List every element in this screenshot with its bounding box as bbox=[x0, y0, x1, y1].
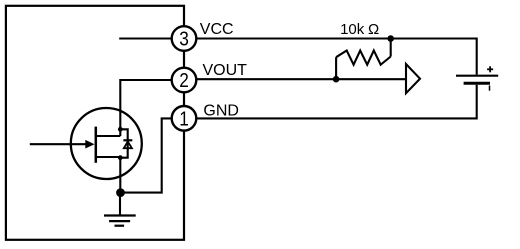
wire VOUT internal: pin2 to transistor drain bbox=[120, 80, 176, 136]
pin 1 circle bbox=[172, 106, 197, 131]
gate/channel bar bbox=[95, 127, 98, 163]
wire VCC internal stub bbox=[119, 37, 176, 39]
svg-text:VCC: VCC bbox=[200, 21, 234, 38]
node drain junction bbox=[118, 127, 123, 132]
transistor Q1 body circle bbox=[71, 108, 142, 179]
svg-text:Ω: Ω bbox=[368, 21, 379, 38]
pin 2 circle bbox=[172, 68, 197, 93]
pin 3 circle bbox=[172, 26, 197, 51]
wire gate lead bbox=[30, 143, 88, 145]
wire GND internal: source node to pin1 bbox=[121, 118, 177, 192]
gate arrowhead bbox=[85, 140, 94, 149]
wire ground stem bbox=[119, 193, 121, 216]
svg-text:VOUT: VOUT bbox=[203, 62, 248, 79]
wire resistor right stub bbox=[390, 39, 392, 57]
wire source tap bbox=[97, 156, 121, 158]
wire drain tap bbox=[97, 135, 121, 137]
wire source lead down bbox=[119, 157, 121, 193]
ground symbol bbox=[104, 216, 136, 226]
wire VOUT external: pin2 to buffer input bbox=[192, 78, 406, 80]
buffer amplifier U2 triangle bbox=[406, 64, 420, 93]
IC package outline U1 bbox=[6, 6, 184, 240]
battery BT1 negative plate bbox=[464, 82, 490, 85]
wire resistor left stub bbox=[335, 57, 337, 79]
battery minus tick bbox=[489, 86, 491, 91]
body diode branch wire bbox=[120, 129, 127, 157]
node VOUT-resistor junction bbox=[333, 76, 340, 83]
svg-text:10k: 10k bbox=[340, 21, 365, 38]
battery plus label bbox=[487, 66, 493, 72]
battery BT1 positive plate bbox=[456, 75, 498, 77]
wire GND external: pin1 to battery negative bbox=[192, 85, 477, 119]
svg-text:GND: GND bbox=[203, 103, 239, 120]
body diode D1 cathode bar bbox=[123, 139, 132, 141]
node VCC-resistor junction bbox=[387, 35, 394, 42]
svg-text:2: 2 bbox=[179, 70, 189, 92]
resistor R1 zigzag bbox=[336, 51, 391, 65]
svg-text:3: 3 bbox=[179, 29, 189, 51]
node source junction bbox=[118, 155, 123, 160]
svg-text:1: 1 bbox=[179, 109, 189, 131]
node ground junction bbox=[116, 188, 125, 197]
body diode D1 triangle bbox=[124, 142, 132, 149]
wire VCC external: pin3 to battery positive bbox=[192, 39, 477, 75]
